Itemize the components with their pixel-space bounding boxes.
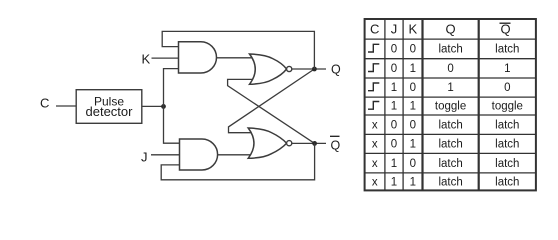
svg-text:0: 0 (504, 82, 510, 94)
svg-text:x: x (372, 119, 378, 131)
wire C input (56, 105, 76, 107)
AND gate G1 (K side) (179, 42, 217, 73)
svg-text:1: 1 (504, 63, 510, 75)
svg-text:0: 0 (391, 139, 397, 151)
NOR gate G4 (Qbar side) (248, 128, 292, 158)
svg-text:latch: latch (438, 44, 462, 56)
svg-text:latch: latch (438, 119, 462, 131)
wire clock to lower AND gate (164, 106, 180, 143)
wire cross-couple Q to NOR G4 input (229, 69, 315, 133)
svg-text:1: 1 (391, 176, 397, 188)
AND gate G2 (J side) (180, 139, 218, 170)
svg-text:1: 1 (391, 158, 397, 170)
truth table header row (370, 21, 511, 36)
output label Qbar (330, 136, 341, 152)
node clock junction (161, 104, 166, 109)
svg-text:latch: latch (438, 176, 462, 188)
svg-text:C: C (370, 21, 379, 36)
wire cross-couple Qbar to NOR G3 input (228, 79, 315, 143)
svg-text:Q: Q (331, 139, 341, 153)
node Qbar junction (312, 141, 317, 146)
NOR gate G3 (Q side) (250, 54, 292, 84)
wire feedback Q to G1 (top loop) (162, 31, 314, 69)
clock edge symbol row 4 (368, 83, 379, 91)
svg-text:1: 1 (447, 82, 453, 94)
svg-text:J: J (141, 150, 148, 165)
svg-text:1: 1 (410, 139, 416, 151)
svg-text:J: J (391, 21, 398, 36)
svg-text:0: 0 (410, 119, 416, 131)
svg-text:1: 1 (391, 101, 397, 113)
overline of Qbar header (500, 22, 511, 24)
svg-text:1: 1 (391, 82, 397, 94)
svg-text:0: 0 (410, 82, 416, 94)
svg-text:K: K (142, 51, 151, 66)
svg-text:1: 1 (410, 176, 416, 188)
svg-text:toggle: toggle (492, 101, 523, 113)
truth table grid (365, 19, 536, 190)
svg-text:C: C (40, 96, 49, 111)
svg-text:latch: latch (495, 44, 519, 56)
pulse detector U1 (76, 90, 142, 124)
svg-text:Q: Q (446, 21, 456, 36)
svg-text:x: x (372, 139, 378, 151)
clock edge symbol row 5 (368, 102, 379, 110)
svg-text:1: 1 (410, 63, 416, 75)
svg-text:latch: latch (495, 139, 519, 151)
svg-text:0: 0 (410, 44, 416, 56)
node Q junction (312, 67, 317, 72)
svg-text:detector: detector (86, 104, 134, 119)
svg-text:1: 1 (410, 101, 416, 113)
svg-text:latch: latch (495, 158, 519, 170)
svg-text:0: 0 (391, 119, 397, 131)
clock edge symbol row 2 (368, 44, 379, 52)
svg-text:latch: latch (438, 139, 462, 151)
svg-text:x: x (372, 176, 378, 188)
wire Qbar output (292, 142, 326, 144)
wire pulse detector output (142, 105, 164, 107)
truth table body text (372, 44, 523, 189)
svg-text:0: 0 (391, 44, 397, 56)
svg-text:Q: Q (331, 63, 341, 77)
wire feedback Qbar to G2 (bottom loop) (161, 143, 314, 179)
svg-text:toggle: toggle (435, 101, 466, 113)
wire G2 output to NOR G4 (218, 154, 253, 156)
svg-text:K: K (408, 21, 417, 36)
svg-text:latch: latch (438, 158, 462, 170)
svg-text:0: 0 (410, 158, 416, 170)
svg-text:0: 0 (447, 63, 453, 75)
wire K input (152, 57, 179, 59)
wire Q output (292, 68, 326, 70)
svg-text:latch: latch (495, 119, 519, 131)
wire G1 output to NOR G3 (217, 57, 254, 59)
wire J input (151, 154, 180, 156)
svg-text:x: x (372, 158, 378, 170)
wire clock to upper AND gate (164, 69, 179, 107)
clock edge symbol row 3 (368, 64, 379, 72)
svg-text:0: 0 (391, 63, 397, 75)
svg-text:latch: latch (495, 176, 519, 188)
